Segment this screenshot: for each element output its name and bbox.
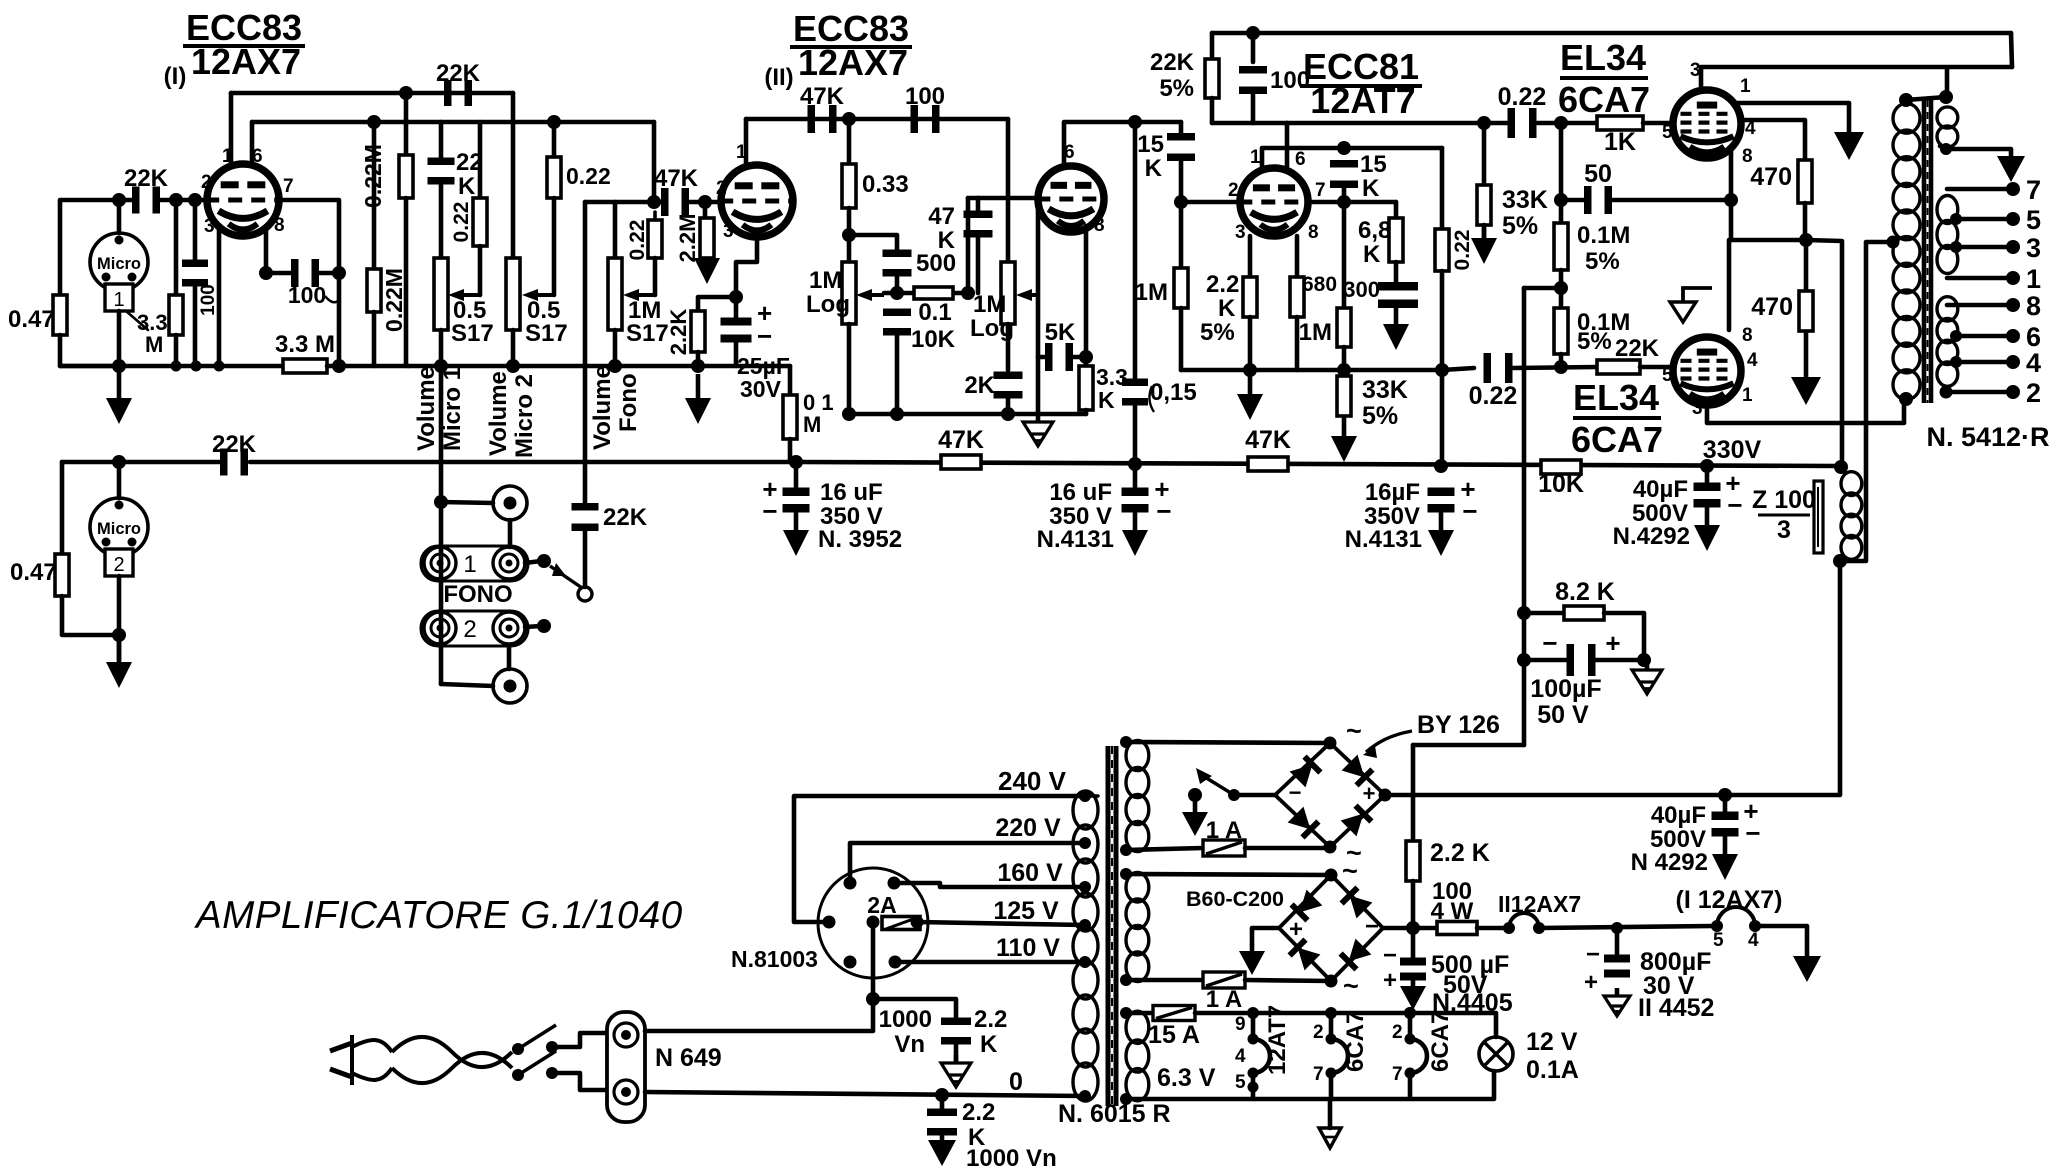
label 500V no2b [1650, 826, 1706, 853]
ground arrow bias plus [1239, 944, 1265, 975]
potentiometer 1M Log no2 [1001, 262, 1015, 324]
node heater II b [1533, 922, 1545, 934]
V1 pin 7 [283, 176, 294, 197]
wire 100uF right [1596, 658, 1644, 663]
svg-text:110 V: 110 V [996, 934, 1060, 962]
diode B60 b [1342, 888, 1373, 919]
fuse holder N649 body [607, 1012, 645, 1122]
capacitor 5K [1045, 343, 1073, 371]
wire 0.15 vertical [1133, 122, 1138, 380]
node tap 3 [1950, 241, 1962, 253]
diode BY126 d [1341, 806, 1372, 837]
ground arrow 300 [1383, 304, 1409, 350]
svg-text:(II): (II) [764, 64, 793, 91]
wire 22K5 bottom [1210, 98, 1215, 123]
label K (plate) [1362, 175, 1380, 202]
svg-text:5: 5 [1662, 365, 1673, 386]
label terminal 4 [2026, 348, 2041, 378]
svg-text:0.33: 0.33 [862, 171, 909, 198]
EL34-2 pin 4 [1747, 350, 1758, 371]
svg-text:16µF: 16µF [1365, 479, 1420, 506]
tube V2 label ECC83 [793, 8, 909, 49]
label plus 40uF2 [1743, 796, 1758, 826]
label 1K [1604, 128, 1636, 156]
V4 pin 3 [1235, 222, 1246, 243]
label - bridge2 [1365, 913, 1379, 940]
selector pin L [823, 916, 836, 929]
ground triangle bias [1632, 662, 1662, 694]
V3 pin 6 [1064, 142, 1075, 163]
label FONO [443, 581, 512, 608]
label 1M (tone2) [973, 291, 1006, 318]
heater 12AT7 [1247, 1007, 1270, 1099]
label M (bleeder) [803, 412, 821, 437]
label 100 4W a [1432, 878, 1472, 905]
svg-text:4: 4 [1748, 930, 1759, 951]
rectifier bridge BY126 top corner [1324, 737, 1337, 750]
label Volume (pot1) rotated [413, 366, 440, 451]
svg-text:+: + [1605, 628, 1620, 658]
PT primary bottom tap [1079, 1090, 1091, 1102]
label 2.2 no1 [974, 1006, 1007, 1033]
svg-text:N.4292: N.4292 [1613, 523, 1690, 550]
svg-text:16 uF: 16 uF [1049, 479, 1112, 506]
wire selector common [871, 922, 876, 999]
wire switch2 to fuse [552, 1073, 607, 1090]
label 1M no2 [1299, 319, 1332, 346]
svg-text:240 V: 240 V [998, 766, 1067, 796]
pentode EL34 no2 [1673, 337, 1741, 405]
svg-text:~: ~ [1343, 971, 1359, 1001]
mains cord twisted [392, 1037, 512, 1083]
label 500 [916, 250, 956, 277]
svg-text:6.3 V: 6.3 V [1157, 1064, 1216, 1092]
wire pot2 bottom [511, 330, 516, 366]
node bias mid [1554, 281, 1568, 295]
svg-text:(I 12AX7): (I 12AX7) [1676, 886, 1783, 914]
label minus 40uF1 [1727, 490, 1742, 520]
label minus 800uF [1586, 941, 1600, 968]
wire 0.22M no2 bottom [372, 312, 377, 366]
resistor 22K 5% fb [1205, 59, 1219, 98]
capacitor 0.1 tone [883, 309, 911, 336]
node bus A junction [399, 86, 413, 100]
Micro2 pin top [115, 501, 124, 510]
svg-text:~: ~ [1342, 856, 1358, 886]
svg-text:Z 100: Z 100 [1752, 486, 1816, 514]
wire pot1 bottom [439, 330, 444, 366]
wire OPT sec1 bottom tap [1940, 146, 2011, 149]
label 0.15 squiggle [1149, 386, 1154, 412]
node bias join [1637, 653, 1651, 667]
svg-text:N.4131: N.4131 [1037, 526, 1114, 553]
label 2K [964, 372, 995, 399]
svg-text:12AT7: 12AT7 [1310, 80, 1415, 121]
tube V1 label ECC83 [186, 7, 302, 48]
PT core [1108, 746, 1116, 1106]
svg-text:2K: 2K [964, 372, 995, 399]
wire sec1 top to bridge [1126, 742, 1330, 743]
svg-text:50: 50 [1584, 160, 1612, 188]
svg-text:1: 1 [2026, 264, 2041, 294]
label Z100 denom [1777, 516, 1791, 544]
wire EL34-1 pin4 [1741, 120, 1805, 160]
svg-text:1: 1 [1740, 76, 1751, 97]
label 0.22M drop rotated [1451, 230, 1474, 271]
svg-text:2: 2 [201, 172, 212, 193]
triode V4 ECC81 [1238, 168, 1309, 236]
label 16uF no1 [820, 479, 883, 506]
svg-text:22K: 22K [1615, 335, 1660, 362]
label 470 no1 [1750, 163, 1792, 191]
potentiometer Volume Micro2 [506, 258, 520, 330]
bridge1 plus corner [1379, 789, 1392, 802]
wire micro1 input [160, 198, 207, 203]
wire 6.8K branch [1394, 202, 1399, 218]
capacitor 100 fb [1239, 66, 1267, 94]
svg-text:33K: 33K [1502, 186, 1548, 214]
wire OPT mid tap [1840, 242, 1893, 561]
label 5% (V4) [1200, 319, 1235, 346]
label 100 rotated [198, 284, 219, 316]
resistor 2.2K 5% [1243, 277, 1257, 317]
switch HT fixed [1228, 789, 1240, 801]
wire 1M no2 bottom [1342, 347, 1347, 370]
node tone top [842, 228, 856, 242]
PT primary tap 110V [1079, 956, 1091, 968]
label 25uF [737, 353, 790, 379]
label terminal 8 [2026, 291, 2041, 321]
diode B60 d [1341, 939, 1372, 970]
PT HV secondary 1 [1126, 740, 1149, 851]
svg-text:−: − [1586, 941, 1600, 968]
label Micro 1 rotated [439, 367, 466, 451]
wire 33K no1 top [1482, 123, 1487, 185]
wire 16uF1 stem [794, 462, 799, 489]
node 15K2 tap [1337, 141, 1351, 155]
svg-text:II 4452: II 4452 [1638, 994, 1714, 1022]
svg-text:40µF: 40µF [1651, 802, 1706, 829]
wire selector 240V [794, 796, 1085, 922]
wire 0.22M no2 [372, 122, 377, 269]
pentode EL34 no1 [1673, 90, 1741, 158]
wire tone horizontal [884, 291, 968, 296]
EL34-2 pin 1 [1742, 385, 1753, 406]
label N4292 no1 [1613, 523, 1690, 550]
wire 2.2K drop [1411, 745, 1416, 841]
wire cap 1000Vn [873, 999, 956, 1017]
node screens [1799, 233, 1813, 247]
node bias 100uF [1517, 653, 1531, 667]
label K (tone) [938, 227, 956, 254]
label 50V [1537, 701, 1589, 729]
wire plate to OPT [1945, 68, 1950, 97]
tube V4 label underline [1300, 84, 1422, 88]
label 1M (tone1) [809, 267, 842, 294]
label 1M pot3 [628, 297, 661, 324]
wire tone1 bottom [847, 324, 852, 414]
svg-text:5K: 5K [1045, 319, 1076, 346]
wire input ground bus [60, 364, 283, 369]
label + bridge1 [1363, 781, 1376, 806]
wire V1 pin8 lead [264, 230, 269, 273]
label - bridge1 [1289, 780, 1302, 805]
svg-text:K: K [458, 173, 476, 200]
wire 0.22 feed pot2 [552, 122, 557, 157]
capacitor 40uF no2 [1712, 812, 1739, 837]
svg-text:Volume: Volume [485, 371, 512, 456]
svg-text:6,8: 6,8 [1358, 217, 1391, 244]
wire 15K2 to grid2 [1342, 186, 1347, 202]
svg-text:S17: S17 [451, 320, 494, 347]
svg-text:5%: 5% [1362, 402, 1398, 430]
wire OPT tap 1 [1947, 276, 2013, 281]
resistor 0.1M 5% no2 [1554, 308, 1568, 354]
lamp 12V [1479, 1037, 1513, 1071]
svg-text:0.22: 0.22 [1469, 382, 1518, 410]
svg-text:12AT7: 12AT7 [1264, 1005, 1291, 1075]
svg-text:47K: 47K [1245, 426, 1291, 454]
svg-text:5: 5 [1662, 122, 1673, 143]
label 5K [1045, 319, 1076, 346]
triode V1 ECC83(I) [205, 164, 281, 236]
label pin2 h2 [1392, 1022, 1403, 1043]
node bias 8.2K [1517, 606, 1531, 620]
potentiometer 1M Log no1 [842, 262, 856, 324]
label 1A no1 [1206, 817, 1242, 844]
wire V4 bus to 0.22 lower [1442, 368, 1474, 370]
arrow 470no2 [1791, 331, 1821, 405]
PT sec2 bottom [1120, 974, 1132, 986]
label N3952 [818, 526, 902, 553]
label 0.15 [1150, 379, 1197, 406]
resistor 0.22M drop [1435, 229, 1449, 271]
rectifier bridge BY126 bottom corner [1324, 841, 1337, 854]
switch mains contact 1b [546, 1041, 558, 1053]
node heater I b [1749, 920, 1761, 932]
ground arrow switch [1182, 800, 1208, 836]
Micro1 plug box [105, 284, 133, 311]
wire 2.2K feed [1413, 743, 1524, 748]
fuse 2A diagonal [886, 918, 916, 929]
V2 pin 1 [736, 142, 747, 163]
PT sec3 top [1120, 1007, 1132, 1019]
svg-text:(I): (I) [164, 63, 187, 90]
label 125 V [993, 897, 1059, 925]
wire fono line vertical [583, 202, 588, 506]
node grid 3.3M tap [169, 193, 183, 207]
wire tone ground bus [849, 412, 1086, 417]
label ~ bridge2 top [1342, 856, 1358, 886]
capacitor 300 [1378, 282, 1418, 308]
wire to heater II [1477, 926, 1509, 931]
wire cathode to cap [266, 271, 291, 276]
svg-text:12AX7: 12AX7 [798, 42, 908, 83]
OPT secondary coil 1 [1937, 107, 1958, 147]
wire top feedback bus [1212, 31, 2011, 36]
wire 47Kcap bottom [976, 236, 981, 293]
node 0.1 gnd [890, 407, 904, 421]
V1 pin 1 [222, 146, 233, 167]
V1 pin 3 [204, 216, 215, 237]
label 5% fb [1159, 75, 1194, 102]
label 100 fb [1270, 67, 1310, 94]
wire 47K cap branch [968, 196, 978, 201]
terminal 5 [2006, 212, 2020, 226]
node 800uF [1611, 922, 1623, 934]
fuse 1A no1 [1203, 840, 1245, 856]
node choke bottom [1833, 554, 1847, 568]
label pin7 h1 [1313, 1064, 1324, 1085]
wire to top rca [441, 502, 493, 503]
wire 100 fb stem [1251, 33, 1256, 62]
ground triangle tone [1023, 414, 1053, 446]
label 0.5 pot2 [527, 297, 560, 324]
EL34 no2 label [1573, 377, 1659, 418]
svg-text:15 A: 15 A [1148, 1021, 1200, 1049]
label plus 800uF [1584, 969, 1598, 996]
svg-text:1M: 1M [1299, 319, 1332, 346]
svg-text:3.3 M: 3.3 M [275, 331, 335, 358]
wire micro1 left branch [60, 200, 133, 295]
switch open contact [578, 587, 592, 601]
label plus 100uF [1605, 628, 1620, 658]
label 15 (plate) [1360, 151, 1387, 178]
wire EL34-1 cathode down [1729, 200, 1734, 240]
switch mains lever 2 [518, 1051, 556, 1075]
svg-text:0: 0 [1009, 1068, 1023, 1096]
label 33K no1 [1502, 186, 1548, 214]
wire V3 cathode [1084, 226, 1089, 366]
potentiometer Volume Fono [608, 258, 622, 330]
resistor 470 no2 [1799, 291, 1813, 331]
wire 0.22M drop [1440, 148, 1445, 229]
node OPT sec top [1939, 90, 1953, 104]
svg-text:−: − [1462, 496, 1477, 526]
heater hump I12AX7 [1717, 907, 1755, 926]
FONO jack 1 left [424, 547, 456, 579]
node tone mid [890, 286, 904, 300]
label K (V3) [1098, 387, 1115, 413]
label K (input) [1145, 155, 1163, 182]
label 10K [1538, 470, 1584, 498]
label 40uF no2 [1651, 802, 1706, 829]
wire V4 pin8 lead [1295, 236, 1300, 277]
label 350V no1 [820, 503, 883, 530]
wire 3.3M bottom [174, 335, 179, 366]
label 1M grid [1135, 279, 1168, 306]
switch mains contact 1a [512, 1043, 524, 1055]
node 16uF no2 [1128, 457, 1142, 471]
wire 0.47 no2 bottom [62, 596, 119, 635]
node bus B at 0.22M [367, 115, 381, 129]
svg-text:22K: 22K [212, 431, 257, 458]
label Micro (1) [97, 255, 141, 273]
svg-text:N 649: N 649 [655, 1044, 722, 1072]
ground triangle 800uF [1604, 988, 1630, 1016]
node V3 plate bus [1128, 115, 1142, 129]
svg-text:10K: 10K [911, 326, 956, 353]
svg-text:2A: 2A [867, 892, 896, 918]
svg-text:2.2: 2.2 [962, 1099, 995, 1126]
svg-text:7: 7 [283, 176, 294, 197]
label 33K no2 [1362, 376, 1408, 404]
svg-text:5: 5 [1235, 1072, 1246, 1093]
diode BY126 b [1342, 755, 1373, 786]
svg-text:0.1: 0.1 [918, 299, 951, 326]
svg-text:+: + [1289, 916, 1303, 943]
svg-text:FONO: FONO [443, 581, 512, 608]
wire 0.22l to 22K [1513, 367, 1597, 368]
label 0.1M no2 [1577, 309, 1630, 336]
capacitor 16uF no3 [1428, 488, 1455, 513]
label 6.3V [1157, 1064, 1216, 1092]
svg-text:100µF: 100µF [1530, 675, 1601, 703]
label 470 no2 [1751, 293, 1793, 321]
svg-text:1: 1 [1250, 147, 1261, 168]
Micro2 pin right [128, 538, 137, 547]
node V4 bus 2.2K [1243, 363, 1257, 377]
svg-text:100: 100 [905, 83, 945, 110]
wire cap to pot1 top [439, 183, 444, 258]
wire 0.15 to bus [1133, 404, 1138, 464]
svg-text:680: 680 [1302, 273, 1337, 296]
selector pin BL [844, 956, 857, 969]
label 1A no2 [1206, 986, 1242, 1013]
label plus 25uF [757, 298, 772, 328]
label 16uF no2 [1049, 479, 1112, 506]
wire V4 grid right [1308, 200, 1396, 205]
wire 0.33 resistor [847, 119, 852, 164]
node 50cap right [1724, 193, 1738, 207]
wire grid wire V3 [978, 196, 1038, 201]
label 47K (V2 cap) [654, 165, 699, 192]
svg-text:2: 2 [113, 554, 124, 576]
wire sec2 bottom to fuse2 [1126, 978, 1203, 983]
V2 pin 3 [723, 221, 734, 242]
EL34-1 pin 3 [1690, 60, 1701, 81]
label 15A [1148, 1021, 1200, 1049]
ground arrow 33K1 [1471, 228, 1497, 264]
label S17 pot2 [525, 320, 568, 347]
label plus 500uF [1383, 967, 1397, 994]
svg-text:S17: S17 [626, 320, 669, 347]
resistor 1K [1597, 116, 1643, 130]
wire 1M no2 [1342, 202, 1347, 308]
svg-text:8.2 K: 8.2 K [1555, 578, 1615, 606]
svg-text:100: 100 [1270, 67, 1310, 94]
wire busB corner to 47K cap [652, 122, 657, 202]
wire 0.22u to 1K [1537, 121, 1597, 126]
label 0.1M no1 [1577, 222, 1630, 249]
node 16uF no1 [789, 455, 803, 469]
svg-text:2: 2 [1228, 180, 1239, 201]
svg-text:100: 100 [198, 284, 219, 316]
wire V1 pin1 to top bus A [229, 93, 234, 164]
wire cap2 stem [940, 1095, 945, 1110]
wire selector 160V [894, 883, 1085, 887]
wire 5K left stub [1038, 355, 1048, 360]
wire cap100 branch [193, 200, 198, 262]
svg-text:0.1A: 0.1A [1526, 1056, 1579, 1084]
wire screens to 330V [1806, 240, 1842, 466]
svg-text:−: − [1542, 628, 1557, 658]
svg-text:K: K [1098, 387, 1115, 413]
capacitor 15K plate [1330, 160, 1358, 188]
svg-text:15: 15 [1137, 131, 1164, 158]
label minus 16uF1 [762, 496, 777, 526]
wire 22K cap to pot1 [439, 122, 444, 159]
